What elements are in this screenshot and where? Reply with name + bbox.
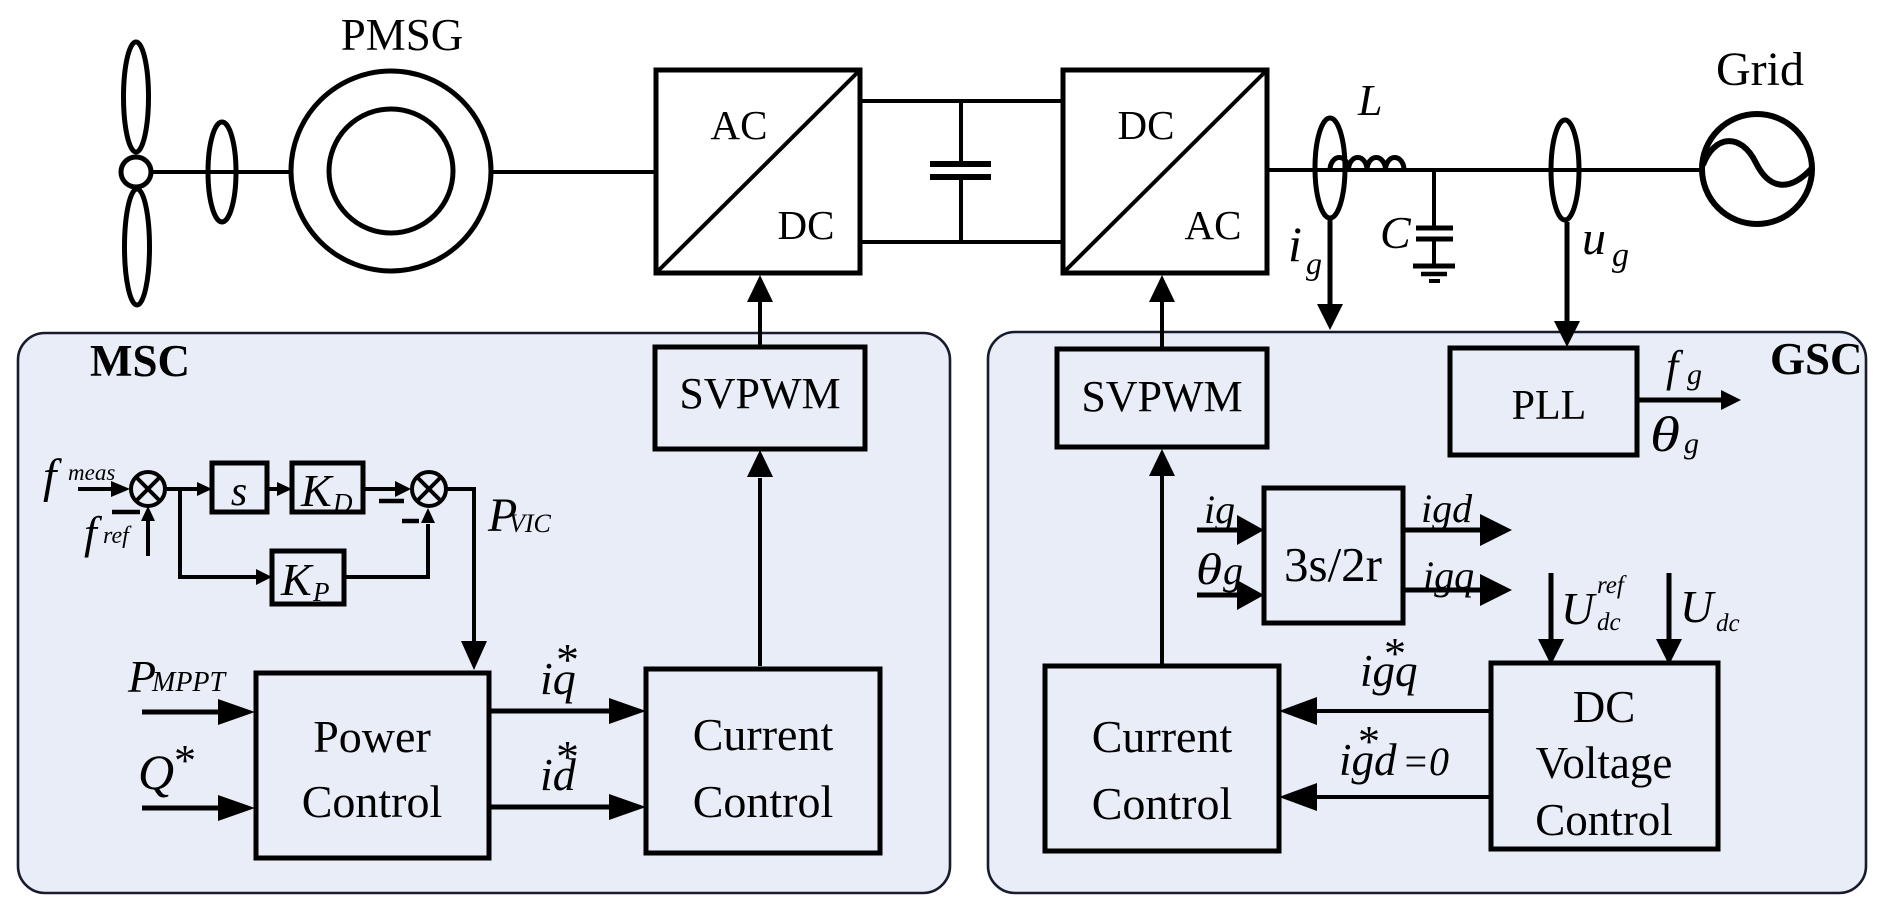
svg-text:ref: ref xyxy=(1597,572,1627,599)
svg-text:Voltage: Voltage xyxy=(1536,738,1673,788)
svg-text:i: i xyxy=(1288,216,1302,272)
svg-text:3s/2r: 3s/2r xyxy=(1284,537,1382,592)
svg-text:*: * xyxy=(1358,717,1380,766)
svg-text:Current: Current xyxy=(693,709,834,760)
svg-text:D: D xyxy=(332,488,353,518)
svg-text:igd: igd xyxy=(1421,486,1473,531)
svg-text:s: s xyxy=(231,469,247,515)
svg-text:C: C xyxy=(1380,207,1412,258)
svg-text:Power: Power xyxy=(313,711,431,762)
svg-text:SVPWM: SVPWM xyxy=(1081,372,1242,421)
svg-text:u: u xyxy=(1582,212,1606,265)
svg-text:Control: Control xyxy=(302,776,443,827)
svg-text:SVPWM: SVPWM xyxy=(679,369,840,418)
svg-text:L: L xyxy=(1357,76,1382,125)
svg-text:AC: AC xyxy=(711,102,768,148)
svg-text:*: * xyxy=(556,634,579,685)
svg-text:=0: =0 xyxy=(1402,739,1449,784)
svg-text:Grid: Grid xyxy=(1716,43,1804,96)
svg-text:θ: θ xyxy=(1650,406,1680,462)
svg-text:g: g xyxy=(1684,427,1699,460)
svg-text:*: * xyxy=(174,736,196,785)
svg-text:g: g xyxy=(1306,245,1322,281)
svg-text:K: K xyxy=(300,465,334,516)
svg-text:Control: Control xyxy=(1535,795,1673,845)
svg-text:g: g xyxy=(1612,237,1629,274)
svg-text:θ: θ xyxy=(1196,545,1222,594)
svg-text:U: U xyxy=(1680,581,1716,632)
svg-text:AC: AC xyxy=(1185,202,1242,248)
svg-text:K: K xyxy=(280,554,314,605)
svg-text:Q: Q xyxy=(138,744,174,800)
svg-text:U: U xyxy=(1561,583,1597,634)
svg-text:g: g xyxy=(1687,358,1702,391)
svg-text:Control: Control xyxy=(693,776,834,827)
svg-text:DC: DC xyxy=(778,202,835,248)
svg-text:DC: DC xyxy=(1118,102,1175,148)
svg-text:*: * xyxy=(556,731,579,782)
svg-text:P: P xyxy=(312,577,330,607)
svg-text:PLL: PLL xyxy=(1512,383,1587,429)
svg-text:meas: meas xyxy=(68,460,115,485)
svg-text:dc: dc xyxy=(1716,610,1740,637)
svg-text:*: * xyxy=(1384,629,1406,678)
svg-text:PMSG: PMSG xyxy=(341,10,464,60)
svg-text:MPPT: MPPT xyxy=(151,667,228,698)
svg-text:DC: DC xyxy=(1573,682,1636,732)
svg-text:dc: dc xyxy=(1597,609,1621,636)
svg-text:Control: Control xyxy=(1092,778,1233,829)
svg-text:GSC: GSC xyxy=(1770,334,1863,384)
svg-text:ref: ref xyxy=(103,523,132,549)
svg-text:MSC: MSC xyxy=(90,336,190,386)
svg-text:ig: ig xyxy=(1204,487,1235,532)
svg-text:Current: Current xyxy=(1092,711,1233,762)
svg-text:VIC: VIC xyxy=(509,509,552,538)
